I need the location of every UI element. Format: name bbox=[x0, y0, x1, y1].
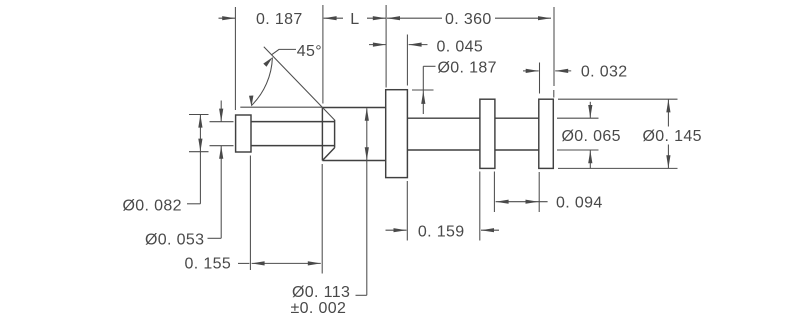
svg-text:L: L bbox=[350, 11, 359, 28]
svg-text:0. 045: 0. 045 bbox=[437, 39, 484, 56]
svg-text:Ø0. 065: Ø0. 065 bbox=[562, 128, 621, 145]
svg-text:0. 032: 0. 032 bbox=[581, 64, 628, 81]
svg-text:45°: 45° bbox=[297, 43, 322, 60]
svg-text:Ø0. 187: Ø0. 187 bbox=[438, 59, 497, 76]
svg-text:Ø0. 053: Ø0. 053 bbox=[145, 231, 204, 248]
svg-text:0. 155: 0. 155 bbox=[185, 256, 232, 273]
svg-text:0. 094: 0. 094 bbox=[556, 195, 603, 212]
svg-text:Ø0. 113: Ø0. 113 bbox=[292, 284, 350, 301]
svg-text:Ø0. 145: Ø0. 145 bbox=[643, 128, 702, 145]
svg-text:0. 159: 0. 159 bbox=[418, 224, 465, 241]
svg-text:Ø0. 082: Ø0. 082 bbox=[123, 197, 182, 214]
svg-text:±0. 002: ±0. 002 bbox=[291, 300, 347, 317]
svg-text:0. 187: 0. 187 bbox=[256, 11, 303, 28]
svg-text:0. 360: 0. 360 bbox=[445, 11, 492, 28]
